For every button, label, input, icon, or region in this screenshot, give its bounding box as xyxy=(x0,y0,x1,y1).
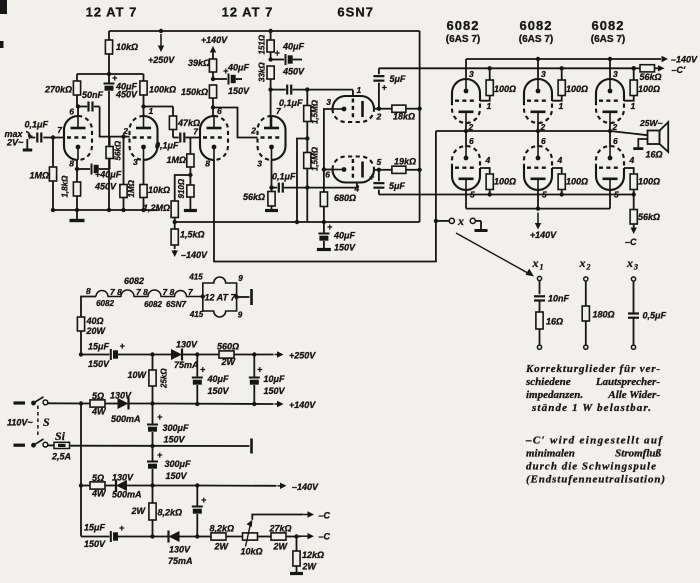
capacitor 10uF 150V (to +140V) xyxy=(249,355,286,407)
resistor 270k (tube1 plate load) xyxy=(44,74,81,107)
resistor 100R lower grid stopper no.3 xyxy=(624,168,660,197)
svg-text:+: + xyxy=(327,222,333,232)
wire direct coupling to tube4 grid xyxy=(213,108,258,138)
svg-text:3: 3 xyxy=(541,69,546,79)
capacitor 40uF 450V plate decoupling xyxy=(271,42,305,77)
svg-text:–140V: –140V xyxy=(292,482,319,492)
svg-text:x: x xyxy=(626,256,633,270)
svg-text:+: + xyxy=(201,495,207,505)
power triode 6082 lower no.1 xyxy=(452,146,480,190)
node upper plate xyxy=(377,107,381,111)
svg-text:50nF: 50nF xyxy=(82,90,104,100)
svg-text:+140V: +140V xyxy=(289,400,316,410)
resistor 151 ohm plate load xyxy=(258,31,275,60)
capacitor 300uF 150V lower xyxy=(147,446,191,486)
svg-text:130V: 130V xyxy=(176,340,198,350)
wire divider mid to rail xyxy=(297,139,307,223)
node -C output xyxy=(294,534,301,538)
svg-text:1,5MΩ: 1,5MΩ xyxy=(311,99,320,124)
speaker 25W 16ohm xyxy=(610,118,668,160)
label tube type 12AT7 (first) xyxy=(86,5,138,20)
resistor 8.2k 2W (line5) xyxy=(210,524,243,552)
wire upper plate to output rail no.2 xyxy=(536,123,540,133)
capacitor 50nF coupling xyxy=(82,90,104,112)
svg-text:10kΩ: 10kΩ xyxy=(241,547,263,557)
svg-text:150V: 150V xyxy=(208,386,230,396)
svg-text:6: 6 xyxy=(541,136,546,146)
node tube4 plate coupling xyxy=(268,87,272,91)
svg-text:12 AT 7: 12 AT 7 xyxy=(222,5,274,20)
svg-text:5: 5 xyxy=(377,157,382,167)
svg-text:6: 6 xyxy=(325,170,330,180)
svg-text:1,8kΩ: 1,8kΩ xyxy=(61,175,70,198)
svg-text:151Ω: 151Ω xyxy=(258,34,267,54)
svg-text:6082: 6082 xyxy=(96,299,114,308)
svg-text:9: 9 xyxy=(238,274,243,283)
svg-text:2W: 2W xyxy=(214,542,230,552)
svg-text:100Ω: 100Ω xyxy=(566,84,588,94)
wire tube3 cathode to output bootstrap xyxy=(214,131,436,262)
svg-text:450V: 450V xyxy=(282,67,305,77)
mains switch upper pole xyxy=(14,397,48,406)
svg-text:+: + xyxy=(120,341,126,351)
resistor 8.2k 2W vertical xyxy=(131,486,183,537)
note Korrekturglieder xyxy=(525,363,660,414)
arrow to correction networks xyxy=(456,233,534,277)
svg-text:Korrekturglieder für ver-: Korrekturglieder für ver- xyxy=(525,363,660,375)
resistor 1.8k tube1 cathode xyxy=(61,160,81,210)
grid rail lower (-C) xyxy=(379,194,634,196)
node line5 cap junction xyxy=(150,534,211,538)
note -C' adjustment xyxy=(525,435,665,486)
ground rail input stages xyxy=(51,208,158,212)
svg-text:40μF: 40μF xyxy=(333,231,355,241)
resistor 560R 2W xyxy=(217,342,254,368)
triode V1a 12AT7 input xyxy=(64,116,92,160)
node bus lower xyxy=(417,168,421,172)
svg-text:10kΩ: 10kΩ xyxy=(148,185,170,195)
resistor 100R upper grid stopper no.1 xyxy=(480,66,516,101)
svg-text:+250V: +250V xyxy=(289,351,316,361)
svg-text:2W: 2W xyxy=(273,542,289,552)
svg-text:100Ω: 100Ω xyxy=(566,177,588,187)
wire lower plate to +140V rail no.3 xyxy=(609,190,611,209)
wire line3 neutral xyxy=(70,444,250,448)
svg-text:3: 3 xyxy=(613,69,618,79)
power triode 6082 upper no.3 xyxy=(596,79,624,123)
svg-text:7 8: 7 8 xyxy=(163,287,175,297)
svg-text:8: 8 xyxy=(205,159,210,169)
svg-text:500mA: 500mA xyxy=(111,414,141,424)
svg-text:6082: 6082 xyxy=(144,300,162,309)
svg-text:5μF: 5μF xyxy=(389,181,405,191)
svg-text:1MΩ: 1MΩ xyxy=(127,179,136,197)
wire cathode to -140V rail no.3 xyxy=(608,57,612,79)
resistor 18k upper xyxy=(379,105,420,121)
resistor 16 ohm (x1) xyxy=(536,301,563,346)
capacitor 15uF 150V (line5) xyxy=(81,523,169,550)
svg-text:150V: 150V xyxy=(164,435,186,445)
power triode 6082 upper no.2 xyxy=(524,79,552,123)
svg-text:stände 1 W belastbar.: stände 1 W belastbar. xyxy=(531,402,651,414)
resistor 56k feedback xyxy=(106,137,123,169)
supply arrow +140V (driver) xyxy=(201,35,228,53)
svg-text:4: 4 xyxy=(629,155,635,165)
pin 4 lower 6082 no.1 xyxy=(485,155,491,165)
svg-text:2W: 2W xyxy=(221,357,237,367)
svg-text:5: 5 xyxy=(542,190,547,200)
pin 2 upper 6082 no.1 xyxy=(468,122,474,132)
svg-text:15μF: 15μF xyxy=(84,523,105,533)
svg-text:1MΩ: 1MΩ xyxy=(29,171,49,181)
svg-text:150V: 150V xyxy=(334,243,356,253)
resistor 40R 20W heater dropper xyxy=(77,316,106,355)
resistor 100R lower grid stopper no.1 xyxy=(480,168,516,197)
svg-text:8: 8 xyxy=(86,286,91,296)
potentiometer 10k xyxy=(241,520,263,557)
resistor 100k (tube2 plate load) xyxy=(140,74,176,107)
svg-text:(6AS 7): (6AS 7) xyxy=(446,34,480,45)
resistor 1.5k to -140V xyxy=(171,222,204,249)
svg-text:–C: –C xyxy=(625,237,637,247)
svg-text:6082: 6082 xyxy=(447,18,480,33)
svg-text:5: 5 xyxy=(470,190,475,200)
node 39k-150k junction xyxy=(211,77,215,81)
pin 6 tube3 xyxy=(217,106,222,116)
wire lower plate to +140V rail no.2 xyxy=(537,190,539,209)
svg-text:100Ω: 100Ω xyxy=(638,84,660,94)
svg-text:3: 3 xyxy=(133,157,138,167)
svg-text:Si: Si xyxy=(55,429,66,443)
wire upper plate lead xyxy=(374,108,379,110)
capacitor 0.5uF (x3) xyxy=(628,281,666,345)
node output test point x xyxy=(434,219,438,223)
svg-text:2W: 2W xyxy=(131,506,147,516)
label -C' bias xyxy=(672,65,687,75)
resistor 10k (feed from rail) xyxy=(105,31,138,74)
pin 1 upper 6082 no.1 xyxy=(487,101,492,111)
capacitor 300uF 150V upper xyxy=(147,404,189,447)
resistor 47k coupling xyxy=(169,107,200,138)
ground tube3 divider xyxy=(184,209,197,212)
svg-text:560Ω: 560Ω xyxy=(217,342,239,352)
pin 1 6SN7a xyxy=(357,85,362,95)
svg-text:–C: –C xyxy=(319,511,331,521)
triode V3a 6SN7 upper xyxy=(333,96,375,122)
svg-text:2: 2 xyxy=(122,126,128,136)
pin 2 upper 6082 no.2 xyxy=(540,122,546,132)
capacitor 15uF 150V (line1) xyxy=(81,341,171,369)
pin 8 tube3 xyxy=(205,159,210,169)
svg-text:56kΩ: 56kΩ xyxy=(243,192,265,202)
ground test point xyxy=(475,221,488,231)
cathode return rail xyxy=(175,221,420,223)
resistor 56k upper grid feed xyxy=(632,65,665,82)
svg-text:150V: 150V xyxy=(228,86,250,96)
svg-text:16Ω: 16Ω xyxy=(546,317,563,327)
diode 130V 75mA (line1) xyxy=(171,340,199,371)
triode V1b 12AT7 xyxy=(130,116,158,160)
svg-text:Stromfluß: Stromfluß xyxy=(615,448,661,460)
capacitor 10nF (x1) xyxy=(534,281,570,304)
heater label 9 top xyxy=(238,274,243,283)
node +140V feed xyxy=(536,206,540,210)
svg-text:schiedene: schiedene xyxy=(525,376,571,388)
wire upper plate to output rail no.3 xyxy=(608,123,612,133)
pin 2 tube2 xyxy=(122,126,128,136)
capacitor 0.1uF coupling to V2a xyxy=(155,133,200,151)
capacitor 5uF upper coupling xyxy=(373,68,406,108)
svg-text:75mA: 75mA xyxy=(168,556,193,566)
pin 3 upper 6082 no.3 xyxy=(613,69,618,79)
capacitor 40uF 450V cathode-feedback xyxy=(77,164,122,192)
svg-text:0,1μF: 0,1μF xyxy=(155,141,179,151)
svg-text:20W: 20W xyxy=(86,326,107,336)
svg-text:1,5MΩ: 1,5MΩ xyxy=(311,146,320,171)
svg-text:8,2kΩ: 8,2kΩ xyxy=(210,524,235,534)
svg-text:40μF: 40μF xyxy=(227,63,249,73)
wire 6SN7 cathode bus xyxy=(324,109,333,192)
resistor 1M tube2 grid leak xyxy=(120,137,136,210)
resistor 680 ohm cathode xyxy=(320,192,356,222)
svg-text:56kΩ: 56kΩ xyxy=(638,212,660,222)
pin 5 lower 6082 no.1 xyxy=(470,190,475,200)
pin 4 lower 6082 no.2 xyxy=(557,155,563,165)
pin 3 6SN7a xyxy=(326,97,331,107)
svg-text:180Ω: 180Ω xyxy=(593,310,615,320)
svg-text:15μF: 15μF xyxy=(88,342,109,352)
svg-text:+: + xyxy=(119,523,125,533)
svg-text:2: 2 xyxy=(376,112,382,122)
arrow +250V output xyxy=(275,351,317,361)
output rail xyxy=(436,130,610,132)
pin 1 upper 6082 no.2 xyxy=(559,101,564,111)
arrow -C output xyxy=(300,532,331,542)
svg-text:100Ω: 100Ω xyxy=(494,84,516,94)
capacitor 0.1uF input xyxy=(25,120,65,143)
svg-text:0,1μF: 0,1μF xyxy=(272,172,296,182)
svg-text:7 8: 7 8 xyxy=(136,287,148,297)
terminal x3 bottom xyxy=(631,345,635,349)
resistor 1.5M lower xyxy=(304,139,320,188)
capacitor 40uF 150V (to +140V) xyxy=(192,355,230,407)
capacitor 5uF lower coupling xyxy=(369,170,405,195)
node 1.5M divider mid xyxy=(305,136,309,140)
svg-text:+: + xyxy=(157,412,163,422)
wire hot column lower xyxy=(80,486,82,537)
resistor 1M tube3 grid leak xyxy=(166,138,194,176)
pin 8 tube1 xyxy=(69,159,74,169)
terminal line3 xyxy=(250,439,253,454)
pin 1 upper 6082 no.3 xyxy=(631,101,636,111)
svg-text:6SN7: 6SN7 xyxy=(166,300,187,309)
wire divider to -140V branch xyxy=(175,175,191,201)
svg-text:450V: 450V xyxy=(94,182,117,192)
resistor 56k lower grid feed xyxy=(630,195,660,229)
test point x link xyxy=(438,214,481,228)
svg-text:1,2MΩ: 1,2MΩ xyxy=(143,203,170,213)
svg-text:(6AS 7): (6AS 7) xyxy=(519,34,553,45)
label tube type 6082 no.1 xyxy=(446,18,480,45)
svg-text:10W: 10W xyxy=(127,370,147,380)
node heater/40R junction xyxy=(79,352,83,356)
svg-text:33kΩ: 33kΩ xyxy=(258,62,267,82)
svg-text:8: 8 xyxy=(69,159,74,169)
resistor 100R upper grid stopper no.3 xyxy=(624,66,660,101)
svg-text:27kΩ: 27kΩ xyxy=(269,524,292,534)
svg-text:680Ω: 680Ω xyxy=(334,193,356,203)
ground cathode bypass xyxy=(317,248,331,251)
heater supply terminal xyxy=(201,289,252,305)
resistor 12k 2W xyxy=(293,537,324,573)
resistor 25k 10W bleeder xyxy=(127,352,168,403)
resistor 1.2M xyxy=(143,201,178,222)
svg-text:9: 9 xyxy=(238,311,243,320)
capacitor 0.1uF from tube4 cathode xyxy=(269,160,307,193)
svg-text:minimalen: minimalen xyxy=(526,448,575,460)
supply arrow -140V (driver) xyxy=(172,250,209,260)
node bus upper xyxy=(417,107,421,111)
svg-text:3: 3 xyxy=(257,159,262,169)
triode V2a 12AT7 xyxy=(200,116,228,160)
pin 3 tube4 xyxy=(257,159,262,169)
arrow -140V output rail xyxy=(662,55,699,65)
svg-text:2: 2 xyxy=(468,122,474,132)
svg-text:2V~: 2V~ xyxy=(6,137,24,147)
pin 2 tube4 xyxy=(250,126,256,136)
svg-text:3: 3 xyxy=(326,97,331,107)
svg-text:1: 1 xyxy=(487,101,492,111)
mains switch lower pole xyxy=(14,439,48,448)
wire bootstrap bus (right vertical) xyxy=(419,31,421,222)
pin 6 tube1 xyxy=(69,107,74,117)
svg-text:910Ω: 910Ω xyxy=(177,178,186,198)
resistor 150k xyxy=(181,85,217,108)
resistor 19k lower xyxy=(379,157,420,174)
heater label 6SN7 xyxy=(166,300,187,309)
svg-text:–140V: –140V xyxy=(671,55,698,65)
svg-text:+: + xyxy=(257,365,263,375)
capacitor electrolytic (-140V to -C line) xyxy=(192,486,207,537)
svg-text:2: 2 xyxy=(586,263,591,272)
svg-text:6082: 6082 xyxy=(520,18,553,33)
node tube1 plate xyxy=(76,104,80,108)
resistor 5R 4W (line2) xyxy=(90,391,118,417)
wire tube2 plate to 47k xyxy=(144,107,174,117)
capacitor 40uF 150V decoupling driver xyxy=(213,63,250,97)
pin 5 lower 6082 no.2 xyxy=(542,190,547,200)
power triode 6082 upper no.1 xyxy=(452,79,480,123)
scan mark top-left corner xyxy=(0,0,7,48)
svg-text:25kΩ: 25kΩ xyxy=(160,368,169,389)
wire line2 xyxy=(48,401,90,405)
wire lower plate lead xyxy=(374,169,379,171)
node 10uF line1 xyxy=(252,352,273,356)
svg-text:0,1μF: 0,1μF xyxy=(25,120,49,130)
heater chain wire xyxy=(81,290,203,317)
resistor 1.5M upper xyxy=(304,90,320,139)
power triode 6082 lower no.2 xyxy=(524,146,552,190)
svg-text:6: 6 xyxy=(69,107,74,117)
svg-text:150kΩ: 150kΩ xyxy=(181,87,208,97)
pin 3 tube2 xyxy=(133,157,138,167)
pin 5 lower 6082 no.3 xyxy=(614,190,619,200)
svg-text:1: 1 xyxy=(540,263,544,272)
svg-text:40μF: 40μF xyxy=(207,374,229,384)
svg-text:10nF: 10nF xyxy=(548,294,570,304)
resistor 33k plate load xyxy=(258,62,275,90)
pin 6 lower 6082 no.2 xyxy=(541,136,546,146)
heater label 6082 bottom-mid xyxy=(144,300,162,309)
svg-text:1: 1 xyxy=(559,101,564,111)
resistor 910 ohm xyxy=(177,175,194,210)
grid rail upper (-C') xyxy=(379,67,634,69)
svg-text:5μF: 5μF xyxy=(390,74,406,84)
svg-text:100kΩ: 100kΩ xyxy=(149,85,176,95)
svg-text:x: x xyxy=(457,214,464,228)
svg-text:–140V: –140V xyxy=(181,250,208,260)
svg-text:16Ω: 16Ω xyxy=(646,150,663,160)
svg-text:+: + xyxy=(369,172,375,182)
svg-text:300μF: 300μF xyxy=(165,459,191,469)
ground 12k xyxy=(290,572,303,575)
switch link S xyxy=(38,406,50,438)
svg-text:12 AT 7: 12 AT 7 xyxy=(204,293,236,303)
arrow -140V output xyxy=(278,482,320,492)
svg-text:3: 3 xyxy=(633,263,638,272)
node grid-divider junction xyxy=(188,173,192,177)
svg-text:–C′ wird eingestellt auf: –C′ wird eingestellt auf xyxy=(525,435,663,447)
svg-text:150V: 150V xyxy=(84,539,106,549)
svg-text:+250V: +250V xyxy=(148,55,175,65)
diode 130V 500mA (line2) xyxy=(110,391,153,425)
svg-text:8,2kΩ: 8,2kΩ xyxy=(158,508,183,518)
label tube type 6082 no.2 xyxy=(519,18,553,45)
svg-text:10μF: 10μF xyxy=(264,374,285,384)
node 151-33k junction xyxy=(268,57,272,61)
node tube2 plate xyxy=(141,104,145,108)
svg-text:+: + xyxy=(275,48,281,58)
svg-text:39kΩ: 39kΩ xyxy=(188,58,210,68)
pin 7 tube4 xyxy=(276,106,282,116)
svg-text:2: 2 xyxy=(540,122,546,132)
wire cathode to -140V rail no.2 xyxy=(536,57,540,79)
pin 7 tube1 xyxy=(57,125,63,135)
svg-text:4W: 4W xyxy=(91,489,107,499)
capacitor 40uF 450V decoupling xyxy=(104,73,139,210)
wire tube4 plate to rail xyxy=(268,29,272,128)
wire lower grid chain to rail xyxy=(295,188,308,225)
wire lower grid lead xyxy=(307,183,357,188)
svg-text:415: 415 xyxy=(188,273,203,282)
svg-text:12 AT 7: 12 AT 7 xyxy=(86,5,138,20)
svg-text:2W: 2W xyxy=(302,562,318,572)
svg-text:130V: 130V xyxy=(169,545,191,555)
plate rail upper (-140V) xyxy=(466,58,661,60)
capacitor 40uF 150V cathode bypass xyxy=(318,222,356,253)
wire cathode to -140V rail no.1 xyxy=(465,59,467,79)
input coupling wiggle xyxy=(26,132,33,140)
svg-text:150V: 150V xyxy=(264,386,286,396)
resistor 39k xyxy=(188,53,217,79)
ground symbol input stages xyxy=(70,210,85,221)
svg-text:4: 4 xyxy=(557,155,563,165)
svg-text:0,5μF: 0,5μF xyxy=(643,311,667,321)
wire output to lower cathode no.1 xyxy=(465,131,467,146)
svg-text:415: 415 xyxy=(189,310,204,319)
arrow -C bias xyxy=(625,228,637,248)
label tube type 12AT7 (second) xyxy=(222,5,274,20)
